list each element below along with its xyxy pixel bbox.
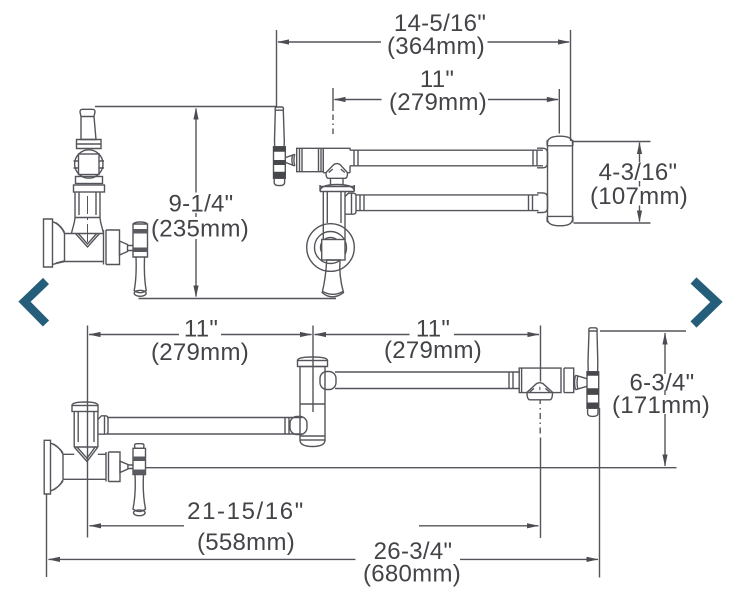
- upper-left stack ring 2: [74, 185, 105, 192]
- svg-text:(235mm): (235mm): [151, 216, 249, 243]
- mid lever tip line: [323, 292, 343, 295]
- lower mid joint cylinder: [300, 367, 325, 441]
- carousel chevron right: [694, 281, 717, 325]
- upper-left stack ring 1: [76, 177, 103, 184]
- dimension 6-3/4 arrow down: [662, 455, 667, 467]
- dimension 6-3/4 extension line top: [600, 330, 686, 332]
- upper-left handle hub: [77, 140, 102, 149]
- dimension 14-5/16 extension line right: [570, 30, 572, 141]
- dimension 4-3/16 extension line bottom: [574, 222, 651, 224]
- mid tee body: [323, 148, 350, 172]
- wall escutcheon inner circle: [321, 238, 341, 258]
- svg-text:(680mm): (680mm): [363, 561, 461, 588]
- dimension 26-3/4 arrow right: [587, 557, 599, 562]
- lower handle cap: [589, 328, 597, 331]
- dimension lower 11 arrow mid left: [314, 332, 326, 337]
- dimension 21-15/16 arrow left: [89, 523, 101, 528]
- svg-text:9-1/4": 9-1/4": [168, 191, 233, 218]
- mid lower elbow: [537, 193, 548, 213]
- dimension 6-3/4 line: [664, 333, 666, 466]
- dimension 11 top extension line right: [558, 89, 560, 134]
- dimension lower 11 lines: [89, 334, 539, 336]
- mid right joint top cap: [547, 136, 573, 146]
- dimension 11 top line: [335, 99, 559, 101]
- dimension 9-1/4 extension line bottom: [139, 298, 337, 300]
- dimension 11 top arrow left: [334, 97, 346, 102]
- lower arm2 end rings: [509, 372, 513, 389]
- dimension lower 11 arrow mid right: [300, 332, 312, 337]
- svg-text:(107mm): (107mm): [590, 183, 688, 210]
- dimension 14-5/16 extension line left: [276, 30, 278, 107]
- dimension 9-1/4 line: [195, 109, 197, 297]
- mid lower arm: [356, 195, 539, 211]
- lower lever hub bands: [133, 457, 146, 475]
- upper-left handle lever: [80, 109, 96, 139]
- lower arm2: [335, 372, 520, 389]
- dimension 4-3/16 line: [639, 143, 641, 222]
- lower elbow riser-arm: [98, 416, 108, 434]
- lower lever end cap: [134, 510, 146, 516]
- wall escutcheon middle circle: [315, 232, 347, 264]
- mid ball nut: [322, 240, 345, 261]
- upper-left ball pin: [74, 161, 105, 168]
- mid upper elbow: [537, 148, 548, 168]
- lower valve body: [63, 454, 106, 479]
- dimension 6-3/4 arrow up: [662, 333, 667, 345]
- dimension 26-3/4 line: [49, 558, 599, 560]
- mid tee tent: [326, 164, 348, 179]
- upper-left lever grip: [134, 257, 146, 293]
- dimension 6-3/4 extension line bottom: [146, 467, 677, 469]
- lower handle tail: [588, 408, 598, 416]
- mid handle hub: [274, 147, 286, 179]
- upper-left ball joint: [75, 150, 103, 178]
- lower arm1: [107, 418, 302, 435]
- upper-left ball nut: [79, 154, 100, 175]
- dimension 4-3/16 arrow down: [637, 211, 642, 223]
- mid right joint bottom cap: [547, 216, 573, 225]
- lower handle shaft: [575, 375, 588, 389]
- mid neck: [331, 178, 344, 184]
- wall escutcheon outer circle: [307, 224, 355, 272]
- upper-left wall flange: [44, 219, 65, 267]
- dimension 26-3/4 arrow left: [48, 557, 60, 562]
- mid right joint cylinder: [548, 143, 573, 219]
- svg-text:4-3/16": 4-3/16": [599, 159, 678, 186]
- lower riser top ring: [72, 406, 98, 412]
- upper-left riser body: [72, 192, 104, 234]
- mid down pipe: [323, 192, 345, 241]
- dimension 14-5/16 line: [278, 41, 569, 43]
- mid upper arm: [350, 150, 543, 166]
- lower handle hub: [587, 372, 599, 409]
- lower riser: [74, 412, 98, 448]
- dimension 4-3/16 arrow up: [637, 142, 642, 154]
- lower elbow arm1-joint: [290, 417, 307, 435]
- lower handle hub bands: [587, 372, 600, 409]
- lower taper connector: [120, 461, 133, 472]
- mid handle tail: [274, 178, 284, 185]
- lower spout cone: [527, 383, 553, 400]
- dimension 26-3/4 extension line right: [599, 408, 601, 578]
- dimension lower 11 right extension line: [539, 326, 541, 539]
- mid handle hub bands: [273, 147, 286, 179]
- dimension lower 11 arrow left: [89, 332, 101, 337]
- dimension 26-3/4 extension line left: [46, 494, 48, 577]
- upper-left tee vee: [72, 234, 104, 248]
- dimension 11 top extension line left: [332, 88, 334, 134]
- carousel chevron left: [25, 281, 47, 324]
- lower mid joint bottom cap: [300, 436, 325, 447]
- lower mid joint top cap: [298, 357, 328, 361]
- dimension 9-1/4 arrow up: [193, 108, 198, 120]
- mid handle shaft: [286, 154, 295, 166]
- svg-text:(558mm): (558mm): [197, 529, 295, 556]
- lower mid joint seam: [300, 403, 325, 405]
- lower lever hub: [133, 448, 146, 474]
- upper-left valve body: [65, 234, 104, 262]
- lower lever cap: [135, 444, 145, 449]
- dimension 4-3/16 extension line top: [574, 141, 651, 143]
- dimension 21-15/16 arrow right: [527, 523, 539, 528]
- mid elbow pipe-arm: [345, 193, 356, 214]
- dimension lower 11 left extension line: [87, 326, 89, 538]
- dimension lower 11 arrow right: [528, 332, 540, 337]
- lower lever grip: [133, 475, 146, 512]
- dimension 14-5/16 arrow left: [277, 39, 289, 44]
- lower handle blade: [588, 331, 598, 372]
- lower tee vee: [74, 447, 98, 462]
- lower right valve body: [519, 368, 574, 393]
- upper-left lever end cap: [134, 290, 146, 296]
- mid flange ring: [320, 185, 354, 192]
- svg-text:(171mm): (171mm): [612, 392, 710, 419]
- svg-text:(364mm): (364mm): [387, 33, 485, 60]
- svg-text:(279mm): (279mm): [384, 337, 482, 364]
- lower ribbed collar: [106, 452, 120, 482]
- upper-left ribbed collar: [104, 230, 120, 265]
- dimension 14-5/16 arrow right: [558, 39, 570, 44]
- svg-text:(279mm): (279mm): [389, 89, 487, 116]
- lower arm1 end rings: [285, 418, 289, 435]
- dimension 9-1/4 extension line top: [95, 106, 277, 108]
- mid handle blade: [275, 110, 285, 147]
- lower spout centerline: [539, 387, 541, 390]
- dimension 9-1/4 arrow down: [193, 286, 198, 298]
- dimension 11 top arrow right: [547, 97, 559, 102]
- dimension lower 11 middle extension line: [312, 326, 314, 413]
- lower mid joint top ring: [298, 361, 328, 367]
- dimension 21-15/16 line: [90, 525, 539, 527]
- mid handle cap: [275, 107, 283, 110]
- svg-text:(279mm): (279mm): [151, 339, 249, 366]
- lower riser top cap: [72, 402, 98, 406]
- lower wall flange: [44, 440, 63, 494]
- svg-text:21-15/16": 21-15/16": [187, 498, 305, 525]
- lower elbow joint-arm2: [320, 372, 336, 390]
- upper-left lever hub bands: [133, 229, 148, 252]
- mid lever down: [322, 260, 343, 297]
- upper-left taper connector: [120, 241, 134, 255]
- upper-left riser centerline: [87, 196, 89, 242]
- upper-left lever hub: [133, 222, 148, 257]
- mid valve coupling: [297, 148, 324, 171]
